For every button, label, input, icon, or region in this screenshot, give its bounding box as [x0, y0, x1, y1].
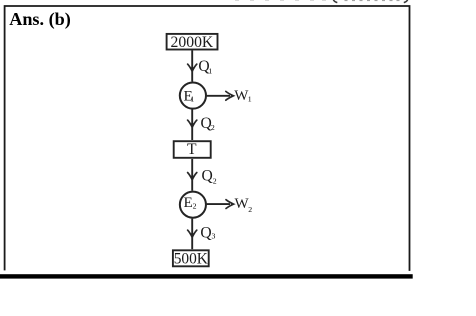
svg-text:2: 2 — [213, 177, 217, 186]
svg-text:500K: 500K — [174, 251, 208, 268]
svg-text:T: T — [187, 141, 197, 158]
svg-text:2000K: 2000K — [171, 34, 214, 51]
svg-text:2: 2 — [193, 201, 197, 210]
svg-text:1: 1 — [208, 66, 212, 75]
svg-text:Ans. (b): Ans. (b) — [9, 9, 71, 30]
svg-text:Q: Q — [202, 168, 213, 185]
svg-text:1: 1 — [248, 94, 252, 103]
svg-text:W: W — [235, 196, 250, 212]
svg-text:2: 2 — [211, 123, 215, 132]
svg-text:Q: Q — [200, 225, 211, 242]
svg-text:2: 2 — [248, 205, 252, 214]
svg-text:E: E — [184, 194, 193, 211]
svg-text:1: 1 — [190, 95, 194, 104]
svg-text:3: 3 — [212, 232, 216, 241]
